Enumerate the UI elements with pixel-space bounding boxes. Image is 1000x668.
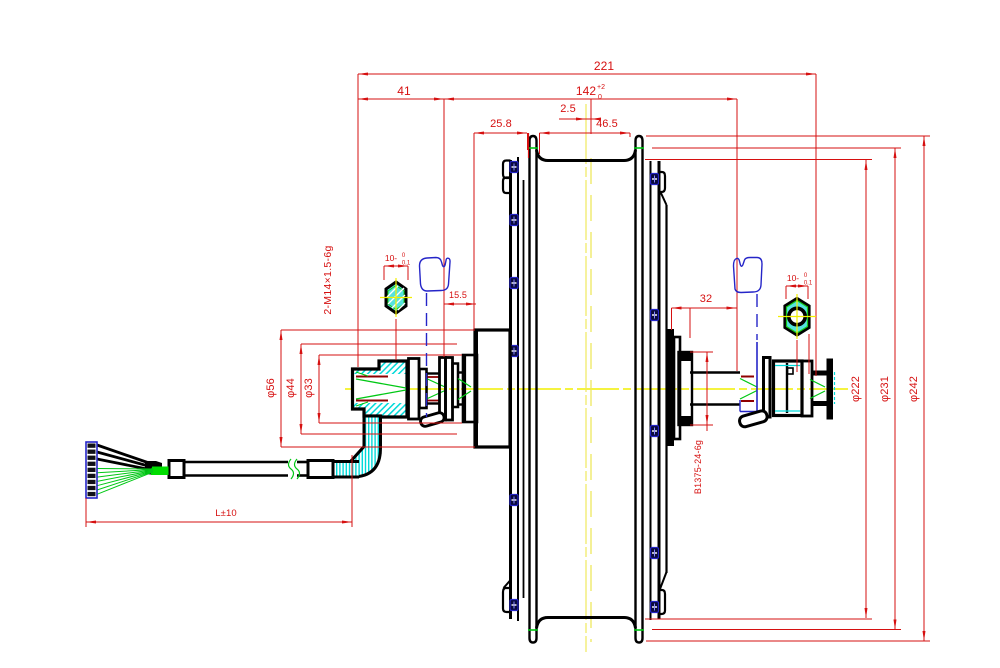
offset witness line xyxy=(590,99,592,134)
right thread crest marks xyxy=(741,376,754,378)
right flange bottom bump xyxy=(659,590,665,614)
right boss step xyxy=(674,337,680,439)
dim 142 line xyxy=(444,98,737,100)
left exposed axle thread top xyxy=(427,372,441,374)
green signal wires xyxy=(97,468,153,471)
svg-text:L±10: L±10 xyxy=(215,508,236,519)
ext phi222 top xyxy=(645,159,872,161)
right washer bent tab xyxy=(738,410,768,428)
svg-text:+2: +2 xyxy=(597,84,605,91)
right flange spoke hole 2 xyxy=(651,310,659,321)
ext phi231 top xyxy=(652,147,901,149)
left shaft to cone xyxy=(458,371,463,373)
freewheel thread band bottom xyxy=(679,416,693,425)
dim 32 xyxy=(672,307,737,309)
dim phi222 xyxy=(865,160,867,618)
right cover silhouette xyxy=(665,205,667,573)
svg-text:2-M14×1.5-6g: 2-M14×1.5-6g xyxy=(322,245,334,314)
svg-text:25.8: 25.8 xyxy=(490,118,512,130)
left thread crest marks xyxy=(428,376,439,378)
right cap hatch hints xyxy=(775,365,800,367)
ext phi33 top xyxy=(319,354,462,356)
right end cap flange xyxy=(802,361,812,416)
dim 41 line xyxy=(358,98,444,100)
red witness inside left lip xyxy=(528,133,530,158)
left flange bottom bump xyxy=(503,588,511,612)
left thread runout cone xyxy=(428,379,446,387)
svg-text:φ44: φ44 xyxy=(285,378,297,398)
svg-text:46.5: 46.5 xyxy=(596,118,618,130)
left flange spoke hole 6 xyxy=(510,600,518,611)
left exposed axle thread bottom xyxy=(427,402,441,404)
ext phi33 bottom xyxy=(319,422,462,424)
drum bed top surface xyxy=(537,150,636,161)
guide nut bore thread crest xyxy=(356,376,388,378)
svg-text:15.5: 15.5 xyxy=(449,290,467,300)
left small washer xyxy=(453,364,459,408)
ext line boss face xyxy=(473,133,475,329)
left spoke flange inner edge xyxy=(517,157,519,621)
detail left hex nut xyxy=(386,282,406,313)
cable outer jacket right xyxy=(297,461,308,464)
left tab washer xyxy=(440,358,446,421)
right axle nut outer xyxy=(774,361,803,416)
left hub boss (phi56) xyxy=(475,330,510,447)
cap internal witness xyxy=(815,360,817,376)
right flange spoke hole 3 xyxy=(651,426,659,437)
drum bed bottom surface xyxy=(537,618,636,629)
green tick left lip bottom xyxy=(528,629,538,631)
svg-text:0.1: 0.1 xyxy=(402,261,411,267)
svg-text:0: 0 xyxy=(598,94,602,101)
left washer projection line xyxy=(426,293,428,417)
green tick left lip top xyxy=(528,147,538,149)
cable sleeve box left xyxy=(169,461,184,478)
hub vertical centerline xyxy=(585,104,587,652)
dim 25.8 xyxy=(474,132,527,134)
left runout cone 2 xyxy=(458,379,471,388)
ext line lip inner xyxy=(539,133,541,154)
cap flange witness xyxy=(808,334,810,374)
dim 15.5 xyxy=(444,303,476,305)
cap bore thread cone xyxy=(810,380,825,388)
dim phi231 xyxy=(894,148,896,630)
left flange lower chamfer xyxy=(504,580,511,588)
dim phi242 xyxy=(923,136,925,641)
right flange spoke hole 5 xyxy=(651,602,659,613)
horizontal axle centerline xyxy=(345,388,848,390)
detail left washer blue outline xyxy=(420,258,451,292)
right washer xyxy=(764,358,771,418)
ext phi44 bottom xyxy=(301,433,457,435)
left flange spoke hole 5 xyxy=(510,495,518,506)
right spoke flange inner edge xyxy=(650,161,652,620)
left tab washer bent tab xyxy=(419,412,445,428)
offset rim centerline (dashed) xyxy=(590,158,592,642)
right nut projection line xyxy=(796,340,798,372)
cable sleeve box right xyxy=(308,461,333,478)
svg-text:10-: 10- xyxy=(385,253,397,263)
right axle shaft bottom xyxy=(690,403,740,406)
svg-text:10-: 10- xyxy=(787,273,799,283)
right flange top bump xyxy=(659,172,665,192)
left flange spoke hole 2 xyxy=(510,215,518,226)
right end cap face xyxy=(827,359,834,420)
left hex nut centerlines xyxy=(380,297,412,299)
svg-text:φ222: φ222 xyxy=(850,376,862,402)
right spoke flange outer face xyxy=(658,161,661,619)
ext phi56 bottom xyxy=(281,446,475,448)
svg-text:32: 32 xyxy=(700,293,712,305)
right washer projection line xyxy=(756,294,758,340)
right thread runout cone xyxy=(740,379,757,388)
right axle nut facet line xyxy=(786,363,788,413)
ext line right lip xyxy=(629,133,631,137)
left flange upper bump xyxy=(503,178,511,194)
dim 46.5 xyxy=(540,132,631,134)
dim 10-0.1 right xyxy=(786,285,808,287)
dim 221 line xyxy=(358,73,816,75)
ext line locknut face left xyxy=(443,99,445,357)
left locknut xyxy=(446,358,453,421)
right torque washer blue outline xyxy=(756,342,758,412)
dim 2.5 offset xyxy=(559,118,601,120)
svg-text:2.5: 2.5 xyxy=(560,103,576,115)
ext L left xyxy=(85,498,87,527)
left flange spoke hole 1 xyxy=(510,162,518,173)
cable break symbol xyxy=(289,459,294,479)
detail right hex nut xyxy=(785,299,809,336)
ext phi44 top xyxy=(301,343,457,345)
guide nut internal thread cone xyxy=(356,379,406,388)
left cone piece (phi33) xyxy=(463,355,477,422)
right end cap body bottom arm xyxy=(812,401,830,406)
svg-text:φ231: φ231 xyxy=(879,376,891,402)
dim L±10 xyxy=(86,521,352,523)
ext phi56 top xyxy=(281,329,475,331)
ext line locknut face right xyxy=(736,99,738,371)
right flange spoke hole 1 xyxy=(651,174,659,185)
right flange top chamfer xyxy=(661,192,667,205)
svg-text:142: 142 xyxy=(576,84,597,98)
left spacer ring xyxy=(420,369,427,408)
left washer tall xyxy=(409,359,420,420)
svg-text:φ242: φ242 xyxy=(908,376,920,402)
right flange spoke hole 4 xyxy=(651,548,659,559)
left rim lip / drum side wall xyxy=(530,136,537,638)
svg-text:φ56: φ56 xyxy=(265,378,277,398)
svg-text:41: 41 xyxy=(397,84,411,98)
ext L right xyxy=(351,455,353,527)
green tick right lip top xyxy=(634,147,644,149)
ext phi242 top xyxy=(646,135,930,137)
right end cap body top arm xyxy=(812,371,830,376)
left flange top small bump xyxy=(503,161,511,179)
left boss face thick edge xyxy=(474,330,478,447)
right cover face thick bar xyxy=(667,329,674,446)
connector block xyxy=(86,442,97,498)
dim phi56 xyxy=(280,330,282,447)
ext 32 mid xyxy=(689,308,691,338)
dim phi44 xyxy=(300,344,302,434)
cable end ferrule xyxy=(145,461,162,475)
left nut projection line xyxy=(395,319,397,360)
right axle shaft top xyxy=(690,371,740,374)
right hex nut centerlines xyxy=(778,316,816,318)
green tick right lip bottom xyxy=(634,629,644,631)
left flange spoke hole 3 xyxy=(510,278,518,289)
ext phi231 bottom xyxy=(652,629,901,631)
svg-text:221: 221 xyxy=(594,59,615,73)
ext phi242 bottom xyxy=(646,640,930,642)
detail right washer blue outline xyxy=(734,258,763,293)
ext line right axle end xyxy=(815,74,817,360)
ext 32 left xyxy=(671,308,673,330)
freewheel thread dia dim xyxy=(706,352,708,425)
right rim lip / drum side wall xyxy=(636,136,643,638)
dim phi33 xyxy=(318,355,320,423)
cable green sheath segment xyxy=(151,467,169,476)
cable outer jacket long xyxy=(184,461,288,464)
right nut chamfer square xyxy=(788,368,794,374)
right flange bottom chamfer xyxy=(660,572,667,589)
dim 10-0.1 left xyxy=(384,265,408,267)
freewheel thread collar xyxy=(679,352,693,425)
svg-text:B1375-24-6g: B1375-24-6g xyxy=(693,440,703,494)
ext line left axle end xyxy=(357,74,359,367)
ext phi222 bottom xyxy=(645,618,872,620)
black phase wires xyxy=(97,445,152,464)
left spoke flange outer face xyxy=(509,160,512,619)
cyan hose straight section xyxy=(333,462,359,478)
svg-text:0.1: 0.1 xyxy=(804,281,813,287)
left cover silhouette xyxy=(523,180,525,598)
ext line lip outer xyxy=(527,133,529,150)
freewheel thread band top xyxy=(679,352,693,361)
left flange spoke hole 4 xyxy=(510,346,518,357)
svg-text:φ33: φ33 xyxy=(303,378,315,398)
cable elbow tube (cyan hose) xyxy=(333,416,381,477)
